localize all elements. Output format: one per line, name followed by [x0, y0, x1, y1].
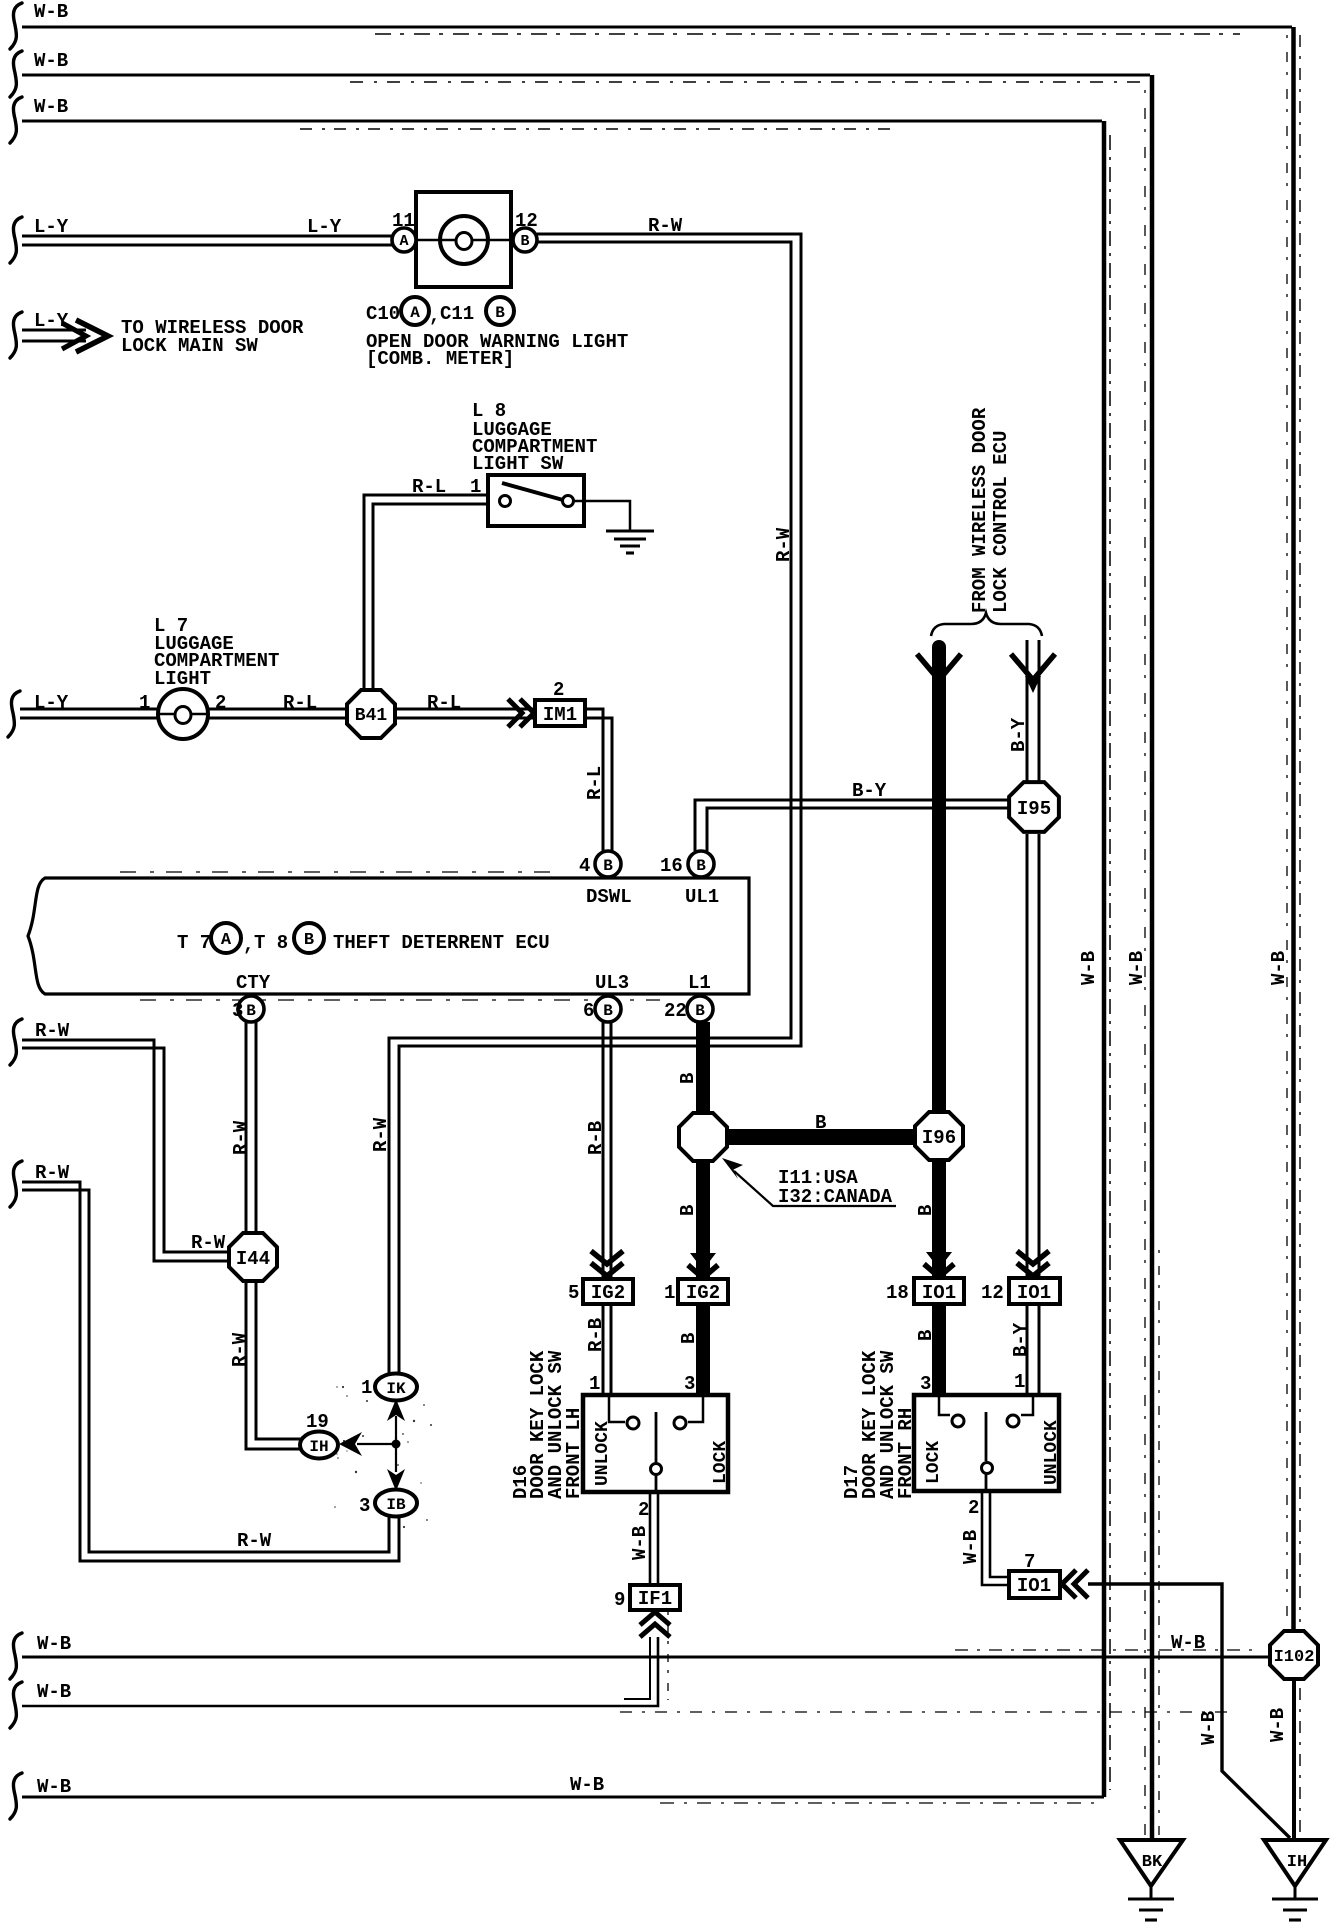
junction B41 — [347, 690, 395, 738]
wire R-B from ECU pin 6 to IG2 pin 5 — [602, 1022, 605, 1279]
ground for L8 switch — [606, 529, 654, 532]
svg-text:LOCK: LOCK — [711, 1441, 731, 1484]
wire R-W harness brace 1 to I44 — [10, 1019, 22, 1065]
wire W-B from bottom line up to IF1 — [22, 1637, 658, 1706]
svg-text:THEFT DETERRENT ECU: THEFT DETERRENT ECU — [333, 932, 550, 954]
svg-text:B: B — [915, 1330, 937, 1341]
svg-text:5: 5 — [568, 1282, 579, 1304]
svg-text:IO1: IO1 — [1017, 1282, 1051, 1304]
svg-text:3: 3 — [684, 1373, 695, 1395]
svg-text:I102: I102 — [1274, 1648, 1315, 1667]
arrow chevrons into IM1 — [520, 699, 534, 727]
switch D16 unlock contact — [609, 1397, 625, 1422]
svg-text:B41: B41 — [355, 706, 388, 726]
svg-text:B: B — [678, 1333, 700, 1344]
svg-text:R-L: R-L — [283, 692, 317, 714]
svg-text:I32:CANADA: I32:CANADA — [778, 1186, 893, 1208]
svg-text:T 8: T 8 — [254, 932, 288, 954]
svg-text:L-Y: L-Y — [34, 216, 69, 238]
svg-text:W-B: W-B — [34, 96, 68, 118]
wire R-L from IM1 down to ECU pin 4 — [585, 709, 603, 851]
ECU pin 6 circle B — [595, 996, 621, 1022]
connector IM1 — [535, 700, 585, 726]
svg-text:W-B: W-B — [34, 1, 68, 23]
arrow chevrons up into IF1 — [640, 1612, 670, 1625]
svg-text:IG2: IG2 — [686, 1282, 720, 1304]
ECU pin 22 circle B — [687, 996, 713, 1022]
connector IO1 pin 7 — [1009, 1571, 1060, 1598]
svg-text:IH: IH — [309, 1438, 328, 1456]
wire B thick from IG2 to D16 pin 3 — [696, 1304, 710, 1395]
connector IB oval — [375, 1490, 417, 1517]
svg-text:UNLOCK: UNLOCK — [593, 1421, 613, 1486]
svg-text:B: B — [603, 857, 613, 875]
svg-text:B: B — [495, 304, 505, 322]
wire B thick from wireless ECU — [932, 647, 946, 1110]
svg-text:IK: IK — [386, 1380, 406, 1398]
svg-text:6: 6 — [583, 1000, 594, 1022]
svg-text:W-B: W-B — [37, 1776, 71, 1798]
svg-text:W-B: W-B — [1267, 1708, 1289, 1742]
wire W-B bottom 3 — [10, 1773, 22, 1819]
ECU pin 16 circle B — [688, 851, 714, 877]
svg-text:1: 1 — [589, 1373, 600, 1395]
svg-text:B: B — [304, 931, 314, 950]
switch D16 pole — [655, 1412, 658, 1462]
svg-text:22: 22 — [664, 1000, 687, 1022]
wire W-B from IO1 pin 7 to IH ground — [1088, 1584, 1290, 1838]
svg-text:9: 9 — [614, 1589, 625, 1611]
ECU pin 4 circle B — [595, 851, 621, 877]
arrow to wireless door lock main SW — [10, 312, 22, 358]
theft deterrent ECU box T7/T8 — [28, 878, 749, 994]
svg-text:A: A — [410, 304, 420, 322]
svg-text:B: B — [815, 1112, 826, 1134]
wire R-L from B41 to IM1 — [397, 708, 535, 711]
arrow chevrons into IO1 pin 7 — [1062, 1570, 1076, 1598]
svg-text:2: 2 — [968, 1497, 979, 1519]
svg-text:3: 3 — [920, 1373, 931, 1395]
wire R-W from ECU pin 3 down to I44 — [245, 1022, 248, 1231]
svg-text:R-L: R-L — [427, 692, 461, 714]
wire L-Y to warning light — [10, 217, 22, 263]
svg-text:L-Y: L-Y — [34, 692, 69, 714]
svg-text:W-B: W-B — [629, 1526, 651, 1560]
wire W-B top 1 vertical to I102 — [1291, 27, 1296, 1630]
arrow down into IB — [387, 1469, 405, 1491]
ground symbol BK — [1150, 1886, 1153, 1898]
junction I102 — [1270, 1631, 1318, 1679]
ECU pin 3 circle B — [238, 996, 264, 1022]
svg-text:CTY: CTY — [236, 972, 271, 994]
svg-text:IF1: IF1 — [638, 1588, 672, 1610]
svg-text:R-L: R-L — [584, 766, 606, 800]
lamp L7 bulb — [158, 689, 208, 739]
wire R-W from I44 down to IH — [246, 1283, 301, 1449]
wire junction vertical — [395, 1416, 397, 1472]
svg-text:UNLOCK: UNLOCK — [1042, 1420, 1062, 1485]
wire inside warning light — [416, 239, 511, 242]
wire W-B from I102 to IH ground — [1292, 1681, 1296, 1840]
svg-text:R-W: R-W — [229, 1332, 251, 1367]
svg-text:LIGHT: LIGHT — [154, 668, 211, 690]
svg-text:W-B: W-B — [37, 1681, 71, 1703]
wire R-L from L8 down to B41 — [364, 495, 488, 689]
brace over wireless ECU wires — [931, 613, 1042, 636]
svg-text:B: B — [246, 1002, 256, 1020]
svg-text:L1: L1 — [688, 972, 711, 994]
svg-text:W-B: W-B — [1171, 1632, 1205, 1654]
svg-text:R-W: R-W — [230, 1120, 252, 1155]
wire R-W harness brace 2 loop to IB — [10, 1161, 22, 1207]
svg-text:W-B: W-B — [37, 1633, 71, 1655]
svg-text:IO1: IO1 — [1017, 1575, 1051, 1597]
svg-text:IO1: IO1 — [922, 1282, 956, 1304]
svg-text:3: 3 — [359, 1495, 370, 1517]
svg-text:B: B — [677, 1073, 699, 1084]
svg-text:[COMB. METER]: [COMB. METER] — [366, 348, 514, 370]
ground symbol IH — [1294, 1886, 1297, 1898]
svg-text:R-B: R-B — [585, 1121, 607, 1155]
wire R-B from IG2 to D16 pin 1 — [602, 1304, 605, 1395]
svg-text:B: B — [915, 1205, 937, 1216]
svg-text:L-Y: L-Y — [34, 310, 69, 332]
svg-text:W-B: W-B — [34, 50, 68, 72]
svg-text:R-W: R-W — [648, 215, 683, 237]
svg-text:B: B — [520, 233, 529, 250]
junction I96 — [915, 1112, 963, 1160]
junction I95 — [1009, 782, 1059, 832]
svg-text:B-Y: B-Y — [852, 780, 887, 802]
svg-text:,: , — [243, 934, 254, 956]
svg-text:1: 1 — [664, 1282, 675, 1304]
arrow chevrons into IG2 pin 5 — [591, 1263, 623, 1276]
svg-text:18: 18 — [886, 1282, 909, 1304]
svg-text:W-B: W-B — [1126, 951, 1148, 985]
warning light bulb — [440, 216, 488, 264]
svg-text:1: 1 — [361, 1377, 372, 1399]
svg-text:LIGHT SW: LIGHT SW — [472, 453, 564, 475]
wire W-B top 2 vertical to BK ground — [1150, 75, 1155, 1840]
connector IF1 — [630, 1585, 680, 1610]
ground triangle IH — [1264, 1840, 1326, 1886]
wire B-Y from I95 down to IO1 pin 12 — [1026, 834, 1029, 1278]
connector IH oval — [300, 1432, 338, 1459]
svg-text:B-Y: B-Y — [1008, 717, 1030, 752]
svg-text:FROM WIRELESS DOOR: FROM WIRELESS DOOR — [969, 407, 991, 613]
switch D17 box — [914, 1395, 1059, 1491]
harness brace W-B bottom 2 — [10, 1682, 22, 1728]
wire B thick from I96 down to IO1 pin 18 — [932, 1161, 946, 1279]
svg-text:A: A — [399, 233, 408, 250]
arrow into IG2 pin 1 — [690, 1253, 716, 1270]
wire R-W from warning light (to theft ECU loop) — [399, 234, 801, 1374]
svg-text:L-Y: L-Y — [307, 216, 342, 238]
svg-text:W-B: W-B — [1198, 1711, 1220, 1745]
svg-text:12: 12 — [981, 1282, 1004, 1304]
connector IG2 pin 1 — [678, 1279, 728, 1304]
wire B thick from I11 octagon down to IG2 pin 1 — [696, 1162, 710, 1279]
svg-text:R-W: R-W — [773, 527, 795, 562]
entry arrow on B-Y wire — [1011, 654, 1055, 680]
connector pin B circle 12 — [513, 228, 537, 252]
connector IK oval — [375, 1374, 417, 1401]
wire L-Y into L7 — [8, 691, 20, 737]
svg-text:LOCK: LOCK — [924, 1441, 944, 1484]
svg-text:,: , — [429, 305, 440, 327]
svg-text:I44: I44 — [236, 1248, 270, 1270]
wire B-Y from wireless ECU to I95 — [1026, 640, 1029, 781]
switch L8 contact right — [563, 496, 574, 507]
wire B thick between octagons — [727, 1129, 914, 1145]
wire W-B top 3 vertical to bottom W-B line — [1102, 121, 1107, 1797]
svg-text:B: B — [695, 1002, 705, 1020]
switch L8 box — [488, 475, 584, 526]
svg-text:R-W: R-W — [35, 1162, 70, 1184]
svg-text:I95: I95 — [1017, 798, 1051, 820]
svg-text:C10: C10 — [366, 303, 400, 325]
arrow up into IK — [387, 1399, 405, 1421]
svg-text:1: 1 — [1014, 1371, 1025, 1393]
svg-text:T 7: T 7 — [177, 932, 211, 954]
svg-text:W-B: W-B — [570, 1774, 604, 1796]
connector IO1 pin 12 — [1009, 1278, 1060, 1304]
svg-text:B: B — [677, 1205, 699, 1216]
wire W-B from D16 pin 2 to IF1 — [649, 1492, 652, 1585]
svg-text:BK: BK — [1142, 1853, 1163, 1872]
svg-text:2: 2 — [553, 679, 564, 701]
connector IO1 pin 18 — [914, 1278, 964, 1304]
wire R-L from L7 to B41 — [208, 708, 346, 711]
switch D17 lock contact — [939, 1397, 950, 1415]
svg-text:IM1: IM1 — [543, 704, 577, 726]
svg-text:R-W: R-W — [370, 1117, 392, 1152]
switch D16 box — [583, 1395, 728, 1492]
arrow chevrons into IO1 pin 12 — [1017, 1263, 1049, 1276]
svg-text:3: 3 — [232, 1000, 243, 1022]
switch D17 pole — [985, 1412, 988, 1461]
svg-text:R-B: R-B — [585, 1318, 607, 1352]
svg-text:2: 2 — [215, 692, 226, 714]
entry arrow on B wire — [917, 654, 961, 680]
wire B-Y from IO1 to D17 pin 1 — [1026, 1304, 1029, 1395]
svg-text:UL3: UL3 — [595, 972, 629, 994]
switch D16 lock contact — [688, 1397, 703, 1422]
arrow into IO1 pin 18 — [926, 1252, 952, 1269]
svg-text:2: 2 — [638, 1499, 649, 1521]
svg-text:IG2: IG2 — [591, 1282, 625, 1304]
wire B thick from IO1 to D17 pin 3 — [932, 1304, 946, 1395]
wire W-B top 1 with harness brace — [10, 3, 22, 49]
switch D17 unlock contact — [1021, 1397, 1033, 1415]
svg-text:4: 4 — [579, 855, 590, 877]
svg-text:C11: C11 — [440, 303, 474, 325]
node junction dot — [392, 1440, 401, 1449]
svg-text:B: B — [603, 1002, 613, 1020]
svg-text:B: B — [696, 857, 706, 875]
svg-text:DSWL: DSWL — [586, 886, 632, 908]
switch L8 contact left — [500, 496, 511, 507]
ground triangle BK — [1120, 1840, 1183, 1886]
svg-text:R-W: R-W — [35, 1020, 70, 1042]
svg-text:UL1: UL1 — [685, 886, 719, 908]
svg-text:IB: IB — [386, 1496, 406, 1514]
svg-text:LOCK MAIN SW: LOCK MAIN SW — [121, 335, 258, 357]
wire W-B top 3 with harness brace — [10, 97, 22, 143]
svg-text:R-W: R-W — [237, 1530, 272, 1552]
switch L8 blade — [502, 483, 563, 500]
svg-text:W-B: W-B — [1078, 951, 1100, 985]
svg-text:W-B: W-B — [1268, 951, 1290, 985]
wire W-B bottom 1 to I102 — [10, 1633, 22, 1679]
wire B thick from ECU pin 22 — [696, 1022, 710, 1112]
svg-text:LOCK CONTROL ECU: LOCK CONTROL ECU — [990, 431, 1012, 613]
svg-text:16: 16 — [660, 855, 683, 877]
svg-text:W-B: W-B — [960, 1530, 982, 1564]
wire W-B from D17 pin 2 to IO1 pin 7 — [982, 1491, 1009, 1585]
junction I11-USA/I32-CANADA octagon — [679, 1113, 727, 1161]
connector pin A circle 11 — [392, 228, 416, 252]
svg-text:IH: IH — [1287, 1853, 1307, 1872]
open door warning light box C10/C11 — [416, 192, 511, 287]
connector IG2 pin 5 — [583, 1279, 633, 1304]
annotation I11:USA / I32:CANADA — [734, 1171, 896, 1206]
wire B-Y from ECU pin 16 to I95 — [695, 800, 1008, 851]
junction I44 — [229, 1233, 277, 1281]
svg-text:1: 1 — [139, 692, 150, 714]
wire W-B top 2 with harness brace — [10, 51, 22, 97]
svg-text:R-W: R-W — [191, 1232, 226, 1254]
svg-text:A: A — [221, 931, 232, 950]
svg-text:I96: I96 — [922, 1127, 956, 1149]
wire L8 to ground — [574, 501, 630, 531]
svg-text:B-Y: B-Y — [1010, 1322, 1032, 1357]
arrow into IH — [339, 1432, 362, 1456]
